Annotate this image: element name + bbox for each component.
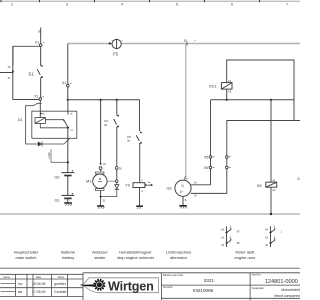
svg-text:6: 6 [231,2,233,6]
svg-text:S1: S1 [28,72,34,77]
frame column numbers [11,2,288,6]
contact K0 [136,135,139,141]
Wirtgen logo [81,278,159,294]
svg-text:K5: K5 [257,184,261,188]
svg-text:5: 5 [176,2,178,6]
svg-text:3: 3 [66,2,68,6]
terminal X5 row [209,156,212,159]
svg-text:Hubabstellmagnet: Hubabstellmagnet [119,249,152,254]
svg-text:A2: A2 [272,188,276,192]
title block right texts [163,274,265,290]
node terminal 30 of M1 [100,163,102,165]
node junction K2 feed on rail [116,99,118,101]
svg-text:X1: X1 [35,40,39,44]
svg-text:X5: X5 [204,155,208,159]
terminal X1 (bus drop) [67,84,70,87]
node junction battery wire [67,161,69,163]
wire G3 W [191,121,227,194]
main switch S1 contact [40,46,42,66]
svg-text:0321: 0321 [204,278,215,283]
ground G3 [182,196,184,205]
coil of D1 [35,118,46,124]
svg-text:124801-0000: 124801-0000 [265,279,298,285]
svg-text:18.04.95: 18.04.95 [32,282,46,286]
svg-text:G1: G1 [54,199,59,203]
svg-text:30: 30 [37,30,41,34]
wire G3 D+ [191,100,210,185]
svg-text:Ident No.: Ident No. [252,274,262,277]
wire ignition rail y=100 right part [211,99,295,101]
svg-text:Anlasser: Anlasser [92,249,108,254]
wire W continuation off page [227,120,300,122]
wire grey potential rail 31 (bottom, y=214) [0,213,300,215]
svg-text:engine runs: engine runs [234,255,255,260]
wire K5 to rail 31 [270,187,272,214]
svg-text:B1: B1 [184,39,188,43]
svg-text:gunther: gunther [54,282,67,286]
svg-text:3~: 3~ [180,190,184,194]
relay coil K5 [266,182,277,187]
svg-text:2: 2 [11,2,13,6]
contact mirror K5.1 [225,226,231,247]
diode across M1 solenoid [116,183,118,185]
terminal X6 row [209,166,212,169]
svg-text:4: 4 [121,2,123,6]
ground Y0 [136,205,143,207]
svg-text:F5: F5 [113,51,119,56]
pin 85 of D1 [40,113,42,115]
svg-text:G3: G3 [166,187,171,191]
svg-text:X1: X1 [62,81,66,85]
relay coil K5.1 [221,83,232,90]
node junction K5 [270,99,272,101]
wire from pole a rejoining X1b [13,99,39,101]
svg-text:starter: starter [94,255,106,260]
contact of D1 [67,100,69,115]
svg-text:Inv.: Inv. [18,282,23,286]
wire X1b down into D1 coil [39,100,41,117]
wire Y0 side tap with arrow [145,184,147,186]
svg-text:D1: D1 [18,118,23,122]
svg-text:Y0: Y0 [125,184,130,188]
ground M1 [97,205,104,207]
svg-text:Designation: Designation [252,287,265,290]
terminal X1 pin b (bottom of switch) [39,98,42,101]
svg-text:03210086: 03210086 [193,288,214,293]
alternator G3 [175,180,191,196]
wire K0 branch corner [139,100,141,131]
frame column ticks [1,0,260,2]
wire M1 solenoid side [107,180,115,182]
wire M1 feed [100,100,102,164]
pin 87 of D1 [67,127,69,129]
wire pole a (junction from off-page) [12,46,14,99]
svg-text:Motor läuft: Motor läuft [235,249,255,254]
svg-text:aw: aw [18,290,23,294]
svg-text:Wirtgen: Wirtgen [108,279,154,293]
svg-text:Serial No.: Serial No. [163,286,173,289]
terminal 50 of starter solenoid [115,167,118,170]
wire bus corner down to X1 (left vertical of top bus) [67,44,69,85]
battery G2 [61,173,74,176]
svg-text:stop engine solenoid: stop engine solenoid [117,255,154,260]
svg-text:Name: Name [58,276,65,279]
wire top loop K5.1 feed [227,60,294,121]
svg-text:main switch: main switch [16,255,37,260]
legend labels [14,249,256,260]
title block lines [0,273,300,300]
svg-text:Motorelektrik: Motorelektrik [281,288,300,292]
svg-text:K0: K0 [127,135,131,139]
svg-text:7: 7 [286,2,288,6]
relay module D1 outer enclosure [26,103,77,144]
contact K2 [116,100,118,116]
wire M1 to ground [100,191,102,206]
svg-text:Name: Name [3,276,10,279]
svg-text:B-: B- [185,199,188,202]
svg-text:K2: K2 [104,119,108,123]
terminal X1 pin a [39,44,42,47]
wire grey potential rail 30 (top bus) [68,43,300,45]
wire K5 coil feed [270,100,272,182]
svg-text:17.05.99: 17.05.99 [32,290,46,294]
frame top border [0,0,300,2]
svg-text:Hauptschalter: Hauptschalter [14,249,39,254]
svg-text:X1: X1 [34,95,38,99]
node junction dot left of F5 [109,42,111,44]
battery G1 [61,195,74,198]
node junction on rail y=100 [67,99,69,101]
node junction M1 feed on rail [100,99,102,101]
svg-text:Lw30: Lw30 [47,152,51,159]
svg-text:X6: X6 [204,166,208,170]
svg-text:K5.1: K5.1 [209,85,216,89]
diode D1 bottom loop [26,138,70,146]
wire X1a left [13,46,40,65]
tiny terminal marks around F5 [112,40,123,42]
svg-text:A2: A2 [228,90,232,94]
svg-text:G: G [297,177,300,181]
svg-text:Lichtmaschine: Lichtmaschine [166,249,192,254]
node junction K5.1 [226,99,228,101]
wire stub net label near battery [50,150,52,163]
wire D1 87 down to battery [67,128,69,173]
wire coil NC branch [46,120,65,122]
svg-text:M1: M1 [86,180,91,184]
svg-text:W: W [97,282,101,287]
fuse F5 [112,39,121,48]
svg-text:1w: 1w [148,182,151,184]
svg-text:G: G [181,184,184,188]
contact mirror K5 [269,226,275,247]
svg-text:A1: A1 [228,79,232,83]
svg-text:A1: A1 [272,179,276,183]
svg-text:alternator: alternator [170,255,188,260]
title block left table texts [3,276,64,279]
node junction on rail 31 [270,213,272,215]
wire stub net label 30 above X1 [40,28,42,44]
frame bottom border [0,267,300,269]
wire grey B+ drop to alternator [185,44,187,177]
svg-text:Gunther: Gunther [54,290,67,294]
wire ignition rail y=100 left part [68,99,140,101]
svg-text:Date: Date [36,276,42,279]
svg-text:battery: battery [62,255,74,260]
ground battery [67,198,69,202]
svg-text:G2: G2 [54,176,59,180]
svg-text:Batterie: Batterie [61,249,76,254]
wire coil common branch [40,123,68,127]
node B1 tick on bus [186,42,188,46]
svg-text:Machine type Code:: Machine type Code: [163,274,184,277]
svg-text:electr components: electr components [274,294,300,298]
